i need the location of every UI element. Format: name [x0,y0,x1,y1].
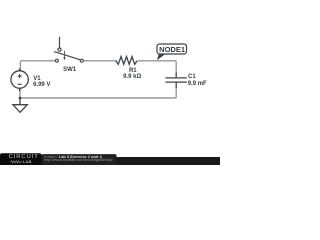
capacitor C1 [166,73,187,89]
label R1 value 9.9 kOhm [123,74,141,80]
label V1 value 6.99 V [33,82,50,88]
wire from V1 top terminal up and right to switch left terminal [20,61,55,70]
node NODE1 callout pointer [157,54,166,60]
wire from switch right terminal to resistor R1 left lead [83,60,117,62]
label SW1 name [63,67,76,73]
wire from resistor R1 right lead to top-right corner and down to capacitor C1 [138,61,176,73]
footer bar [0,157,220,165]
footer credit line 2 URL [44,159,112,163]
node NODE1 callout box [157,44,187,54]
resistor R1 [116,57,137,65]
logo CIRCUIT text [9,155,39,161]
ground [13,98,27,112]
footer logo box [0,153,42,165]
label V1 name [33,76,40,82]
logo resistor zigzag [10,161,22,163]
label R1 name [129,68,137,74]
ground junction dot [19,97,22,100]
label C1 name [188,74,196,80]
logo LAB text [23,160,32,164]
wire from capacitor C1 bottom down and left along bottom to ground junction [20,88,176,99]
footer text box [42,154,117,165]
label NODE1 text [159,46,185,54]
footer credit line 1 [44,155,101,159]
switch SW1 [54,37,83,63]
wire from V1 bottom terminal down to ground junction [19,89,21,98]
voltage source V1 [11,69,28,92]
label C1 value 9.9 mF [188,81,207,87]
